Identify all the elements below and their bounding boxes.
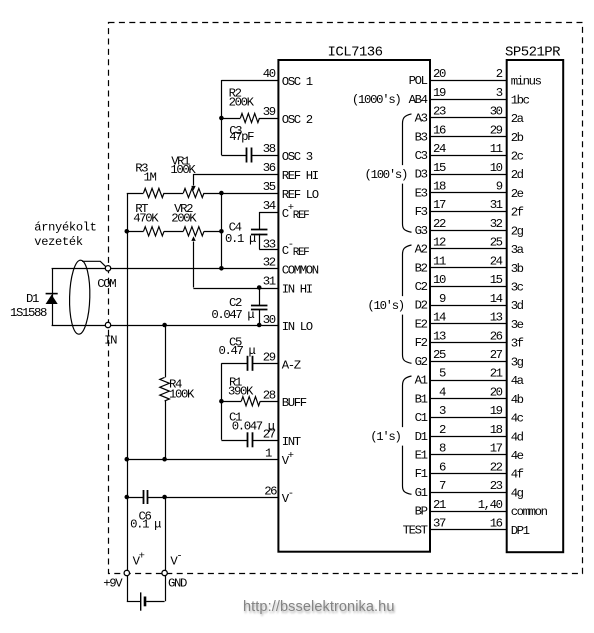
svg-text:20: 20 xyxy=(490,385,503,399)
wire vertical A-Z to INT xyxy=(221,363,223,440)
svg-text:10: 10 xyxy=(433,273,446,287)
svg-text:5: 5 xyxy=(439,367,446,381)
svg-text:200K: 200K xyxy=(171,212,197,226)
svg-text:14: 14 xyxy=(490,292,503,306)
svg-text:13: 13 xyxy=(433,329,446,343)
wire segment AB4 to 1bc xyxy=(430,99,507,101)
wire segment G1 to 4g xyxy=(430,492,507,494)
capacitor C3 47pF pin38 xyxy=(221,155,246,157)
brace digit2 group xyxy=(403,245,412,363)
svg-text:common: common xyxy=(511,505,548,519)
terminal +9V xyxy=(124,570,129,575)
svg-text:24: 24 xyxy=(490,254,503,268)
wire segment B1 to 4b xyxy=(430,398,507,400)
svg-text:20: 20 xyxy=(433,67,446,81)
wire segment G2 to 3g xyxy=(430,361,507,363)
svg-text:29: 29 xyxy=(490,123,503,137)
svg-text:0.1 μ: 0.1 μ xyxy=(130,518,161,532)
svg-text:0.047 μ: 0.047 μ xyxy=(211,308,254,322)
wire segment A2 to 3a xyxy=(430,248,507,250)
svg-text:14: 14 xyxy=(433,311,446,325)
svg-text:13: 13 xyxy=(490,311,503,325)
svg-text:23: 23 xyxy=(490,479,503,493)
svg-text:200K: 200K xyxy=(229,95,255,109)
svg-text:32: 32 xyxy=(263,256,276,270)
svg-text:25: 25 xyxy=(433,348,446,362)
svg-text:OSC 3: OSC 3 xyxy=(282,150,313,164)
svg-text:COMMON: COMMON xyxy=(282,263,319,277)
shield connection line xyxy=(82,261,106,266)
svg-text:1,40: 1,40 xyxy=(478,498,503,512)
svg-text:16: 16 xyxy=(433,123,446,137)
wire segment E3 to 2e xyxy=(430,192,507,194)
svg-text:(1's): (1's) xyxy=(370,430,400,444)
svg-text:23: 23 xyxy=(433,105,446,119)
capacitor C2 0.047u xyxy=(257,285,262,290)
wire segment D2 to 3d xyxy=(430,305,507,307)
svg-text:31: 31 xyxy=(263,275,276,289)
resistor R2 200K pin39 xyxy=(221,118,240,120)
svg-text:G1: G1 xyxy=(415,486,428,500)
svg-text:100K: 100K xyxy=(169,388,195,402)
svg-text:2a: 2a xyxy=(511,112,524,126)
svg-text:33: 33 xyxy=(263,237,276,251)
svg-text:4: 4 xyxy=(439,385,446,399)
svg-text:(1000's): (1000's) xyxy=(352,93,401,107)
svg-text:REF HI: REF HI xyxy=(282,169,319,183)
svg-text:21: 21 xyxy=(433,498,446,512)
svg-text:COM: COM xyxy=(97,277,116,291)
potentiometer VR1 wiper arm xyxy=(193,174,195,186)
svg-text:2e: 2e xyxy=(511,187,524,201)
wire pin40 OSC1 xyxy=(221,80,278,82)
svg-text:OSC 1: OSC 1 xyxy=(282,75,313,89)
svg-text:39: 39 xyxy=(263,105,276,119)
svg-text:470K: 470K xyxy=(133,212,159,226)
svg-text:http://bsselektronika.hu: http://bsselektronika.hu xyxy=(243,599,395,615)
wire V+ rail vertical xyxy=(127,193,129,573)
wire pin1 V+ xyxy=(127,459,279,461)
svg-text:9: 9 xyxy=(496,180,503,194)
svg-text:27: 27 xyxy=(490,348,503,362)
battery BT1 xyxy=(127,576,129,602)
wire vertical osc network xyxy=(221,80,223,155)
wire segment F2 to 3f xyxy=(430,342,507,344)
svg-text:18: 18 xyxy=(490,423,503,437)
svg-text:2b: 2b xyxy=(511,131,524,145)
svg-text:IN HI: IN HI xyxy=(282,283,313,297)
svg-text:12: 12 xyxy=(433,236,446,250)
svg-text:25: 25 xyxy=(490,236,503,250)
svg-text:3c: 3c xyxy=(511,281,524,295)
potentiometer VR2 wiper arm xyxy=(193,242,195,288)
svg-text:TEST: TEST xyxy=(403,523,428,537)
svg-text:1bc: 1bc xyxy=(511,93,530,107)
svg-text:POL: POL xyxy=(409,74,428,88)
svg-text:INT: INT xyxy=(282,435,301,449)
svg-text:4a: 4a xyxy=(511,374,524,388)
svg-text:2g: 2g xyxy=(511,224,524,238)
svg-text:1M: 1M xyxy=(144,171,157,185)
svg-text:B1: B1 xyxy=(415,392,428,406)
svg-text:37: 37 xyxy=(433,516,446,530)
capacitor C1 0.047u pin27 xyxy=(221,440,247,442)
svg-text:2: 2 xyxy=(496,67,503,81)
wire pin36 REF HI xyxy=(193,174,278,176)
svg-text:2f: 2f xyxy=(511,206,524,220)
wire IN loop xyxy=(52,325,108,327)
svg-text:19: 19 xyxy=(490,404,503,418)
svg-text:0.1 μ: 0.1 μ xyxy=(225,232,256,246)
svg-text:F1: F1 xyxy=(415,467,428,481)
resistor RT 470K xyxy=(127,231,144,233)
svg-text:G2: G2 xyxy=(415,355,428,369)
svg-text:IN: IN xyxy=(104,333,117,347)
svg-text:22: 22 xyxy=(433,217,446,231)
svg-text:7: 7 xyxy=(439,479,446,493)
svg-text:2c: 2c xyxy=(511,149,524,163)
svg-text:vezeték: vezeték xyxy=(34,235,83,249)
svg-text:E3: E3 xyxy=(415,186,428,200)
svg-text:36: 36 xyxy=(263,161,276,175)
svg-text:A3: A3 xyxy=(415,112,428,126)
wire segment TEST to DP1 xyxy=(430,529,507,531)
svg-text:21: 21 xyxy=(490,367,503,381)
svg-text:15: 15 xyxy=(490,273,503,287)
svg-text:8: 8 xyxy=(439,442,446,456)
wire pin32 COMMON xyxy=(108,268,278,270)
svg-text:GND: GND xyxy=(168,576,187,590)
wire segment F3 to 2f xyxy=(430,211,507,213)
svg-text:4b: 4b xyxy=(511,393,524,407)
wire segment A1 to 4a xyxy=(430,380,507,382)
svg-text:REF LO: REF LO xyxy=(282,188,319,202)
svg-text:40: 40 xyxy=(263,67,276,81)
svg-text:3b: 3b xyxy=(511,262,524,276)
wire GND vertical xyxy=(165,497,167,573)
svg-text:3: 3 xyxy=(496,86,503,100)
svg-text:18: 18 xyxy=(433,180,446,194)
svg-text:DP1: DP1 xyxy=(511,524,530,538)
svg-text:2: 2 xyxy=(439,423,446,437)
svg-text:9: 9 xyxy=(439,292,446,306)
svg-text:26: 26 xyxy=(264,485,277,499)
wire mid vertical REF LO to COMMON xyxy=(221,193,223,268)
svg-text:SP521PR: SP521PR xyxy=(505,45,561,61)
wire segment C1 to 4c xyxy=(430,417,507,419)
svg-text:0.47 μ: 0.47 μ xyxy=(219,344,256,358)
svg-text:30: 30 xyxy=(490,105,503,119)
wire segment D3 to 2d xyxy=(430,174,507,176)
svg-text:AB4: AB4 xyxy=(409,93,428,107)
svg-text:C3: C3 xyxy=(415,149,428,163)
svg-text:15: 15 xyxy=(433,161,446,175)
diode D1 1S1588 xyxy=(52,268,54,325)
svg-text:minus: minus xyxy=(511,75,542,89)
svg-text:31: 31 xyxy=(490,198,503,212)
svg-text:3d: 3d xyxy=(511,299,524,313)
svg-text:E2: E2 xyxy=(415,317,428,331)
dashed enclosure border xyxy=(109,23,583,574)
svg-text:1S1588: 1S1588 xyxy=(10,306,47,320)
svg-text:D2: D2 xyxy=(415,299,428,313)
svg-text:22: 22 xyxy=(490,460,503,474)
wire segment BP to common xyxy=(430,511,507,513)
svg-text:26: 26 xyxy=(490,329,503,343)
svg-text:3g: 3g xyxy=(511,355,524,369)
brace digit1 group xyxy=(403,376,412,494)
svg-text:16: 16 xyxy=(490,516,503,530)
svg-text:29: 29 xyxy=(263,351,276,365)
wire segment A3 to 2a xyxy=(430,117,507,119)
potentiometer VR2 200K body xyxy=(164,231,183,233)
wire pin31 IN HI xyxy=(193,288,278,290)
wire segment POL to minus xyxy=(430,80,507,82)
capacitor C6 0.1u pin26 V- xyxy=(127,497,143,499)
svg-text:B3: B3 xyxy=(415,130,428,144)
svg-text:11: 11 xyxy=(490,142,503,156)
svg-text:10: 10 xyxy=(490,161,503,175)
svg-text:F3: F3 xyxy=(415,205,428,219)
wire segment B3 to 2b xyxy=(430,136,507,138)
svg-text:38: 38 xyxy=(263,142,276,156)
svg-text:4d: 4d xyxy=(511,430,524,444)
wire segment F1 to 4f xyxy=(430,473,507,475)
shielded cable ellipse xyxy=(69,260,91,335)
wire segment E2 to 3e xyxy=(430,323,507,325)
resistor R4 100K xyxy=(162,323,167,328)
svg-text:C2: C2 xyxy=(415,280,428,294)
wire segment G3 to 2g xyxy=(430,230,507,232)
svg-text:3: 3 xyxy=(439,404,446,418)
svg-text:34: 34 xyxy=(263,199,276,213)
svg-text:3a: 3a xyxy=(511,243,524,257)
svg-text:D1: D1 xyxy=(415,430,428,444)
svg-text:17: 17 xyxy=(433,198,446,212)
terminal GND xyxy=(162,570,167,575)
svg-text:árnyékolt: árnyékolt xyxy=(34,221,96,235)
svg-text:3f: 3f xyxy=(511,337,524,351)
svg-text:4g: 4g xyxy=(511,486,524,500)
wire segment E1 to 4e xyxy=(430,454,507,456)
svg-text:100K: 100K xyxy=(170,163,196,177)
potentiometer VR1 100K body xyxy=(164,193,183,195)
svg-text:B2: B2 xyxy=(415,261,428,275)
svg-text:A2: A2 xyxy=(415,243,428,257)
resistor R3 1M xyxy=(127,193,144,195)
svg-text:A1: A1 xyxy=(415,374,428,388)
terminal COM xyxy=(105,266,110,271)
op chip ICL7136 box xyxy=(278,60,430,552)
svg-text:4c: 4c xyxy=(511,412,524,426)
capacitor C5 0.47u pin29 xyxy=(221,363,247,365)
svg-text:32: 32 xyxy=(490,217,503,231)
svg-text:ICL7136: ICL7136 xyxy=(328,45,383,61)
svg-text:24: 24 xyxy=(433,142,446,156)
svg-text:35: 35 xyxy=(263,180,276,194)
resistor R1 390K pin28 xyxy=(221,401,241,403)
svg-text:D3: D3 xyxy=(415,168,428,182)
display SP521PR box xyxy=(507,60,564,552)
svg-text:BUFF: BUFF xyxy=(282,396,307,410)
svg-text:11: 11 xyxy=(433,254,446,268)
svg-text:E1: E1 xyxy=(415,449,428,463)
wire pin30 IN LO xyxy=(108,325,278,327)
svg-text:IN LO: IN LO xyxy=(282,320,313,334)
wire segment C3 to 2c xyxy=(430,155,507,157)
svg-text:4f: 4f xyxy=(511,468,524,482)
svg-text:(100's): (100's) xyxy=(365,168,408,182)
svg-text:4e: 4e xyxy=(511,449,524,463)
svg-text:(10's): (10's) xyxy=(367,299,403,313)
svg-text:390K: 390K xyxy=(228,384,254,398)
svg-text:0.047 μ: 0.047 μ xyxy=(232,420,275,434)
svg-text:3e: 3e xyxy=(511,318,524,332)
svg-text:17: 17 xyxy=(490,442,503,456)
terminal IN xyxy=(105,322,110,327)
svg-text:28: 28 xyxy=(263,388,276,402)
svg-text:6: 6 xyxy=(439,460,446,474)
brace digit3 group xyxy=(403,114,412,232)
svg-text:19: 19 xyxy=(433,86,446,100)
wire segment D1 to 4d xyxy=(430,436,507,438)
svg-text:D1: D1 xyxy=(26,292,39,306)
capacitor C4 0.1u pins 34-33 xyxy=(259,212,278,214)
wire segment B2 to 3b xyxy=(430,267,507,269)
wire segment C2 to 3c xyxy=(430,286,507,288)
svg-text:C1: C1 xyxy=(415,411,428,425)
svg-text:BP: BP xyxy=(415,505,428,519)
svg-text:A-Z: A-Z xyxy=(282,358,301,372)
svg-text:47pF: 47pF xyxy=(229,130,254,144)
svg-text:OSC 2: OSC 2 xyxy=(282,113,313,127)
svg-text:F2: F2 xyxy=(415,336,428,350)
svg-text:2d: 2d xyxy=(511,168,524,182)
svg-text:30: 30 xyxy=(263,313,276,327)
svg-text:G3: G3 xyxy=(415,224,428,238)
svg-text:1: 1 xyxy=(265,447,272,461)
wire COM loop xyxy=(52,268,108,270)
svg-text:+9V: +9V xyxy=(103,576,123,590)
